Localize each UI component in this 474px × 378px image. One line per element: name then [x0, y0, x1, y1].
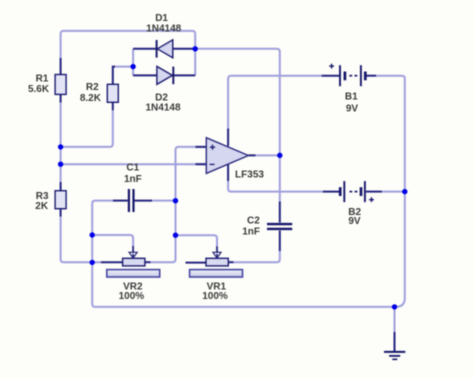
svg-text:C1: C1 [126, 163, 139, 174]
svg-text:1nF: 1nF [124, 174, 142, 185]
svg-text:8.2K: 8.2K [80, 93, 102, 104]
svg-text:R2: R2 [86, 82, 99, 93]
svg-text:C2: C2 [247, 216, 260, 227]
svg-text:B1: B1 [345, 92, 358, 103]
svg-text:9V: 9V [348, 216, 361, 227]
svg-text:1N4148: 1N4148 [145, 103, 180, 114]
svg-text:LF353: LF353 [235, 169, 264, 180]
svg-text:1nF: 1nF [242, 226, 260, 237]
svg-text:5.6K: 5.6K [28, 84, 50, 95]
svg-text:1N4148: 1N4148 [146, 24, 181, 35]
svg-text:2K: 2K [35, 201, 49, 212]
svg-text:100%: 100% [119, 291, 145, 302]
svg-text:9V: 9V [346, 103, 359, 114]
svg-text:100%: 100% [202, 291, 228, 302]
svg-text:R1: R1 [36, 73, 49, 84]
